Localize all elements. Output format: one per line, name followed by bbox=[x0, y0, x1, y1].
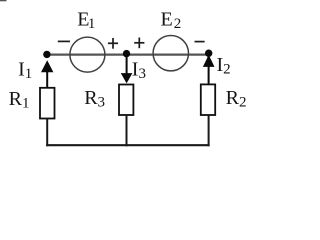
minus sign of E1 bbox=[58, 40, 70, 42]
wire bottom horizontal bus bbox=[46, 144, 209, 146]
wire R2 bottom lead bbox=[208, 115, 210, 146]
wire R1 bottom lead bbox=[46, 119, 48, 147]
node left junction bbox=[43, 51, 50, 58]
svg-text:I3: I3 bbox=[132, 59, 146, 83]
current arrow I3 bbox=[121, 54, 133, 83]
svg-text:R1: R1 bbox=[9, 88, 30, 112]
wire R3 bottom lead bbox=[126, 115, 128, 146]
resistor R3 bbox=[119, 85, 133, 116]
plus sign of E2 bbox=[134, 38, 144, 49]
top-left corner mark bbox=[0, 0, 7, 1]
resistor R1 bbox=[40, 88, 55, 119]
svg-text:R3: R3 bbox=[84, 87, 105, 111]
resistor R2 bbox=[201, 84, 215, 115]
voltage source E1 bbox=[70, 37, 105, 72]
node right junction bbox=[205, 50, 212, 57]
plus sign of E1 bbox=[108, 38, 118, 49]
minus sign of E2 bbox=[195, 41, 205, 43]
svg-text:R2: R2 bbox=[226, 87, 247, 111]
svg-text:I2: I2 bbox=[217, 54, 231, 78]
wire top horizontal bus bbox=[47, 53, 209, 55]
svg-text:E1: E1 bbox=[77, 8, 95, 32]
current arrow I1 bbox=[41, 60, 53, 88]
svg-text:I1: I1 bbox=[18, 59, 32, 83]
current arrow I2 bbox=[203, 55, 215, 85]
node middle junction bbox=[123, 50, 130, 57]
svg-text:E2: E2 bbox=[161, 9, 182, 33]
voltage source E2 bbox=[153, 36, 188, 71]
